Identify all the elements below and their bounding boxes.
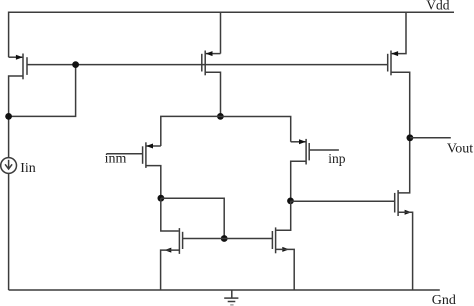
- wire inp source stub: [291, 161, 306, 201]
- transistor M1 (top-left PMOS, diode-connected): [16, 54, 27, 80]
- transistor M6 (bottom-right NMOS): [272, 227, 289, 253]
- ground: [224, 290, 238, 305]
- svg-text:Iin: Iin: [20, 161, 36, 176]
- node bottom mirror gate junction: [221, 235, 228, 242]
- svg-text:inm: inm: [105, 152, 127, 167]
- wire M2 drain stub: [206, 53, 221, 55]
- wire M8 source stub: [391, 72, 410, 138]
- wire Gnd rail: [9, 289, 440, 291]
- svg-text:Vout: Vout: [447, 141, 473, 156]
- wire left column to current source: [8, 117, 10, 158]
- wire inm source stub: [146, 166, 161, 199]
- transistor M7 (output NMOS): [395, 190, 412, 216]
- svg-text:inp: inp: [328, 151, 346, 166]
- wire inm drain stub: [147, 145, 161, 147]
- transistor M5 (bottom-left NMOS, diode master): [164, 228, 182, 254]
- transistor M2 (top-middle PMOS): [202, 51, 213, 76]
- node tail of mirror: [217, 113, 224, 120]
- node Vout junction: [407, 134, 414, 141]
- node left source junction: [5, 113, 12, 120]
- svg-text:Vdd: Vdd: [426, 0, 449, 12]
- wire M8 drain from Vdd: [392, 12, 406, 54]
- wire bottom mirror gate line: [183, 238, 273, 240]
- wire M1 drain stub: [9, 56, 23, 58]
- node right tail junction: [287, 198, 294, 205]
- wire M2 source stub: [205, 72, 220, 116]
- transistor M8 (top-right PMOS): [388, 51, 398, 76]
- wire inp drain stub: [291, 141, 306, 143]
- wire M5 source stub: [161, 250, 180, 290]
- wire M6 source stub: [276, 249, 295, 290]
- wire Vdd rail: [9, 11, 454, 13]
- wire M1 source stub: [9, 76, 23, 117]
- transistor M4 inp input: [299, 139, 309, 165]
- wire current source to Gnd rail: [8, 173, 10, 290]
- wire M2 drain from Vdd: [220, 12, 222, 53]
- wire M7 drain stub: [398, 138, 410, 193]
- wire top gate net: [27, 64, 388, 66]
- wire node to inp drain: [220, 117, 290, 142]
- wire inm gate stub: [107, 153, 143, 155]
- wire node to inm drain: [161, 116, 221, 146]
- current source Iin: [1, 158, 17, 174]
- wire inp gate stub: [309, 149, 339, 151]
- wire Vout: [410, 137, 451, 139]
- wire left tail to gate dot: [161, 198, 224, 238]
- node gate junction: [72, 61, 79, 68]
- wire right tail to output gate: [291, 200, 395, 202]
- wire M6 drain riser: [276, 201, 291, 230]
- wire M7 source stub: [398, 212, 413, 290]
- wire M1 drain from Vdd: [8, 12, 10, 58]
- wire diode connection drop: [9, 65, 76, 117]
- node left tail junction: [158, 195, 165, 202]
- wire M5 drain riser: [161, 198, 179, 231]
- transistor M3 inm input: [143, 142, 153, 168]
- svg-text:Gnd: Gnd: [432, 293, 456, 306]
